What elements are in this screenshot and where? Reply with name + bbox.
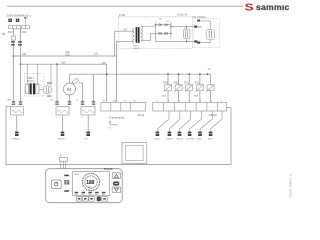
svg-text:05-2019 · 2049617 · v1: 05-2019 · 2049617 · v1 xyxy=(290,173,292,198)
svg-text:2N0: 2N0 xyxy=(21,30,26,34)
motor capacitor diagonal xyxy=(72,78,79,84)
junction L02 tap xyxy=(20,63,22,65)
bottom button 2 xyxy=(83,196,89,201)
fanout wire 5 xyxy=(200,111,212,132)
wire motor aux via capacitor xyxy=(82,82,84,101)
svg-text:L02: L02 xyxy=(102,62,107,65)
svg-text:CH-42: CH-42 xyxy=(154,138,161,140)
svg-text:EV2: EV2 xyxy=(195,82,200,85)
capacitor C2 round xyxy=(43,86,52,94)
transformer TRF1 core xyxy=(30,83,32,94)
terminal out xyxy=(197,42,200,44)
wire psu input L04 xyxy=(115,30,134,32)
chassis double square xyxy=(122,143,147,164)
plug icon chprg xyxy=(188,132,192,136)
power supply module dashed enclosure xyxy=(119,17,193,49)
svg-text:Funcionando: Funcionando xyxy=(110,115,126,119)
bottom button 3 xyxy=(89,196,95,201)
capacitor CX suppressor xyxy=(206,30,215,40)
svg-text:230/12: 230/12 xyxy=(133,48,140,50)
wire psu return down to strip xyxy=(116,42,133,103)
junction L02 drop xyxy=(56,64,58,101)
svg-text:B 01-46: B 01-46 xyxy=(104,168,113,171)
wire L phase vertical xyxy=(13,29,15,102)
wire aux drop xyxy=(93,74,95,101)
svg-text:DCV-1: DCV-1 xyxy=(27,80,35,83)
wire from suppressor xyxy=(200,40,210,43)
button down xyxy=(112,187,121,193)
diode D3 xyxy=(156,32,171,34)
svg-text:S: S xyxy=(245,1,254,13)
svg-text:CBL-M1: CBL-M1 xyxy=(58,139,66,141)
diode D4 xyxy=(165,32,168,35)
connector ticks L wire xyxy=(12,101,15,104)
wire capacitor top feed xyxy=(50,64,52,85)
icon dash bottom xyxy=(64,190,69,192)
icon grid xyxy=(64,180,69,184)
bottom button 1 xyxy=(76,196,82,201)
fuse F1 xyxy=(12,36,16,40)
header rule line xyxy=(7,5,243,7)
relay C1 xyxy=(206,68,214,102)
wire N neutral vertical xyxy=(20,29,22,102)
svg-text:12Vdc 5A: 12Vdc 5A xyxy=(177,14,188,17)
svg-text:PE: PE xyxy=(2,33,6,36)
connector ticks mid pair xyxy=(55,101,58,104)
wire stub to box xyxy=(24,18,26,26)
svg-text:230V-50/60Hz(1~): 230V-50/60Hz(1~) xyxy=(6,13,31,17)
wire riser to psu input xyxy=(114,31,116,56)
svg-text:L04: L04 xyxy=(123,28,128,31)
plug icon chan xyxy=(168,132,172,136)
cable clamp mid xyxy=(56,107,69,116)
rectifier bridge right rail xyxy=(170,22,172,37)
wire bus L02 xyxy=(21,63,107,65)
wire clamp mid to plug xyxy=(62,115,64,132)
diode D1 xyxy=(156,24,171,35)
icon dash top xyxy=(64,175,69,177)
TRF1 DCV-1 dashed enclosure xyxy=(24,74,44,97)
svg-text:G06: G06 xyxy=(61,62,66,65)
bottom button 5 xyxy=(102,196,108,201)
junction bridge xyxy=(155,24,156,25)
rectifier bridge left rail xyxy=(155,22,157,37)
svg-text:ASD-: ASD- xyxy=(197,137,202,140)
relay EV1 xyxy=(184,73,193,102)
svg-text:CS-340/RA ~: CS-340/RA ~ xyxy=(193,16,208,19)
svg-text:AC2: AC2 xyxy=(47,82,52,85)
svg-text:L03: L03 xyxy=(94,53,99,56)
svg-text:EV1: EV1 xyxy=(184,82,189,85)
motor M1 stub xyxy=(69,74,71,83)
connector ticks right pair xyxy=(81,101,84,104)
relay KM2 xyxy=(174,73,183,102)
svg-text:KM2: KM2 xyxy=(174,82,180,85)
transformer TRF1 windings xyxy=(26,84,29,94)
svg-text:CH-AN: CH-AN xyxy=(166,137,173,140)
wire relay bus xyxy=(70,73,212,75)
svg-text:M: M xyxy=(67,87,71,93)
wire clamp left to plug xyxy=(16,115,18,132)
plug icon ch42 xyxy=(156,132,160,136)
cable clamp right xyxy=(81,107,95,116)
button minus xyxy=(113,181,119,185)
terminal dc minus xyxy=(194,40,197,42)
wire dc minus xyxy=(156,38,196,42)
terminal strip X0 xyxy=(9,26,30,29)
transformer T1 core xyxy=(136,27,138,43)
fanout wire 1 xyxy=(157,111,169,132)
terminal strip X6 left xyxy=(101,102,146,111)
svg-text:-X6 10p: -X6 10p xyxy=(208,114,217,117)
wire PE left drop xyxy=(5,107,7,165)
wire dc plus xyxy=(171,26,195,28)
diode D2 xyxy=(165,24,168,27)
display icon row xyxy=(75,192,106,194)
terminal lug L xyxy=(8,19,12,22)
junction on L02 bus xyxy=(56,63,58,65)
motor M1 xyxy=(64,83,76,95)
transformer T1 secondary winding xyxy=(141,26,142,41)
plug icon chdis xyxy=(178,132,182,136)
display bezel xyxy=(73,172,110,196)
connector contacts on L wire xyxy=(11,41,15,45)
button power xyxy=(51,180,61,189)
wire to strip vertical A xyxy=(106,64,108,102)
svg-text:rpm: rpm xyxy=(88,186,92,189)
svg-text:188: 188 xyxy=(86,180,94,186)
capacitor C1 xyxy=(184,30,190,39)
wire secondary to capacitor xyxy=(39,88,43,90)
wire secondary top xyxy=(141,25,156,27)
bottom button 4 xyxy=(97,196,101,201)
connector contacts on N wire xyxy=(18,41,22,45)
wire to suppressor xyxy=(200,21,210,30)
svg-text:KM1: KM1 xyxy=(163,82,169,85)
wire primary feed a xyxy=(26,64,28,85)
svg-text:-X6 4p: -X6 4p xyxy=(137,114,145,117)
connector ticks N wire xyxy=(19,101,22,104)
terminal lug N xyxy=(16,19,19,22)
svg-text:sammıc: sammıc xyxy=(256,2,290,12)
plug icon aux cable xyxy=(86,132,90,136)
svg-text:PRG: PRG xyxy=(74,174,79,176)
terminal in xyxy=(197,20,200,22)
dial inner xyxy=(85,176,97,188)
wire bus L06 xyxy=(14,55,117,57)
wire PE bottom bus xyxy=(6,164,231,166)
terminal dc plus xyxy=(194,26,197,28)
dial ticks ring xyxy=(82,173,99,190)
relay KM1 xyxy=(162,73,172,102)
plug icon motor cable xyxy=(61,132,65,136)
plug icon asp xyxy=(198,132,202,136)
suppressor module dashed enclosure xyxy=(194,19,220,48)
svg-text:TERMIC: TERMIC xyxy=(12,139,20,141)
svg-text:CH-PRG: CH-PRG xyxy=(186,138,194,140)
relay EV2 xyxy=(194,73,204,102)
svg-text:P02: P02 xyxy=(8,30,13,34)
svg-text:AC1: AC1 xyxy=(47,95,52,98)
svg-text:F1 B1: F1 B1 xyxy=(119,14,126,17)
wire primary feed b xyxy=(37,64,39,85)
fanout wire 6 xyxy=(211,111,222,132)
svg-text:L06: L06 xyxy=(22,52,27,56)
cable clamp left xyxy=(10,107,23,116)
terminal strip X6 right xyxy=(153,102,227,111)
sammic logo S mark xyxy=(245,1,254,13)
junction L06 tap xyxy=(13,55,15,57)
signal bracket xyxy=(110,121,118,125)
keypad panel xyxy=(46,169,123,203)
svg-text:SEG+: SEG+ xyxy=(208,138,214,140)
svg-text:G05: G05 xyxy=(65,54,70,57)
wire secondary bottom xyxy=(141,40,151,42)
wire PE right riser xyxy=(230,108,232,165)
wire clamp right to plug xyxy=(87,115,89,132)
plug icon thermal xyxy=(15,132,19,136)
fanout wire 4 xyxy=(190,111,202,132)
fanout wire 2 xyxy=(169,111,180,132)
wire motor bottom xyxy=(69,95,71,101)
plug icon seg xyxy=(209,132,213,136)
fanout wire 3 xyxy=(180,111,191,132)
svg-text:12V: 12V xyxy=(198,27,203,29)
svg-text:CH-DIS: CH-DIS xyxy=(176,138,184,140)
transformer T1 primary winding xyxy=(133,29,134,44)
button up xyxy=(112,173,121,179)
